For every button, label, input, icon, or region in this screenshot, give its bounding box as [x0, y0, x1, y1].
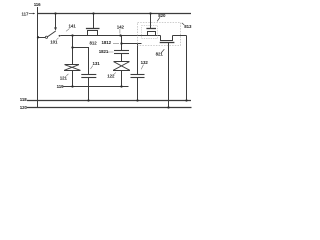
svg-text:116: 116 [34, 2, 41, 7]
svg-text:132: 132 [141, 60, 149, 65]
svg-text:117: 117 [22, 11, 29, 16]
svg-text:812: 812 [90, 40, 98, 45]
svg-text:821: 821 [156, 52, 164, 57]
svg-text:131: 131 [93, 61, 101, 66]
svg-text:121: 121 [60, 75, 68, 80]
svg-text:141: 141 [69, 24, 77, 29]
svg-text:119: 119 [57, 84, 64, 89]
svg-text:813: 813 [184, 24, 192, 29]
svg-text:1812: 1812 [102, 40, 112, 45]
svg-text:118: 118 [20, 97, 27, 102]
svg-text:1821: 1821 [99, 49, 109, 54]
svg-text:120: 120 [20, 105, 28, 110]
svg-text:101: 101 [50, 40, 58, 45]
svg-text:142: 142 [117, 25, 125, 30]
svg-text:820: 820 [158, 13, 166, 18]
svg-text:122: 122 [107, 73, 115, 78]
